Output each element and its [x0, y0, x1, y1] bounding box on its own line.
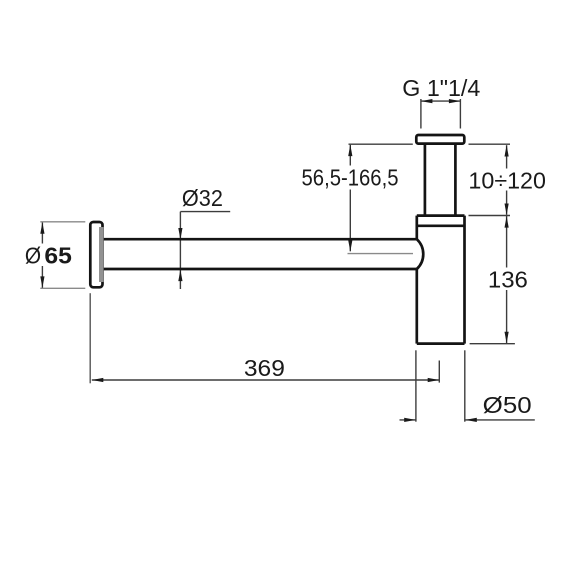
svg-text:56,5-166,5: 56,5-166,5: [302, 164, 399, 190]
svg-text:G 1"1/4: G 1"1/4: [402, 75, 480, 101]
svg-text:65: 65: [44, 243, 72, 269]
svg-text:Ø32: Ø32: [182, 185, 223, 211]
svg-text:369: 369: [244, 355, 285, 381]
svg-text:Ø50: Ø50: [483, 392, 532, 418]
svg-text:Ø: Ø: [25, 243, 41, 269]
svg-text:136: 136: [488, 266, 528, 292]
svg-text:10÷120: 10÷120: [468, 168, 546, 194]
